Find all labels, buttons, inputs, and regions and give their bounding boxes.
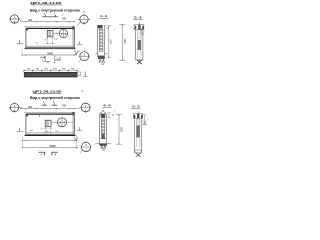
svg-text:3-3: 3-3 <box>134 16 143 20</box>
title 2: panel mark ЦР1-36.13.95 <box>33 89 63 93</box>
dim text under opening <box>44 39 47 41</box>
svg-text:2980: 2980 <box>122 126 124 132</box>
panel 2 top-right corner plate <box>72 112 74 115</box>
top-right corner embed plate <box>72 26 74 29</box>
small label right of cut marks <box>62 15 64 17</box>
small tick below panel 2 top edge <box>39 115 41 117</box>
svg-text:4: 4 <box>40 153 42 157</box>
svg-text:780: 780 <box>62 105 67 108</box>
section 3-3b inner dark fill <box>136 125 139 137</box>
svg-text:24: 24 <box>101 64 104 66</box>
section 2-2 interior ladder <box>101 118 105 134</box>
extension line bottom-right 2 <box>76 136 78 149</box>
left axis marker circle 2 <box>9 102 21 113</box>
svg-text:4: 4 <box>63 121 65 125</box>
svg-text:4: 4 <box>83 21 85 24</box>
panel right edge (double line) <box>73 27 74 49</box>
svg-text:3: 3 <box>147 119 149 121</box>
dim text 140 right of opening dim <box>54 38 58 40</box>
subtitle: view from inner side <box>30 9 80 13</box>
dim text 901 above line 2 <box>28 106 33 109</box>
plan view strip (hatched) <box>24 72 77 77</box>
section 1-1 footing legs <box>99 59 104 63</box>
svg-text:Б: Б <box>14 20 16 24</box>
svg-text:3: 3 <box>61 32 63 36</box>
panel 2 right edge (double line) <box>73 113 74 136</box>
dim text 5990 below panel 2 <box>50 144 56 148</box>
svg-text:780: 780 <box>62 18 67 21</box>
svg-text:т: т <box>95 54 96 56</box>
leader from dim line to right axis circle <box>77 22 81 27</box>
svg-text:1: 1 <box>85 143 87 147</box>
section 2-2 base block <box>100 139 107 146</box>
svg-text:А: А <box>14 15 16 19</box>
section 3-3 base and cross legs <box>136 60 142 64</box>
svg-text:95: 95 <box>36 43 39 45</box>
section 1-1 top cap <box>98 25 103 29</box>
section 2-2 column outline <box>100 113 107 145</box>
section 2-2 top cap <box>100 111 106 118</box>
svg-text:4-4: 4-4 <box>103 103 112 107</box>
svg-text:тв: тв <box>62 15 64 17</box>
section 3-3b column outline <box>135 119 142 153</box>
section 1-1 bottom text <box>101 64 104 66</box>
dim text 780 above line <box>62 18 67 21</box>
svg-text:1: 1 <box>84 52 86 56</box>
level mark left of panel <box>17 40 23 44</box>
section 2-2 side ticks <box>94 143 111 146</box>
V weld mark below panel bottom-right <box>75 50 78 54</box>
svg-text:2980: 2980 <box>125 38 127 44</box>
faint text 180 <box>53 56 56 58</box>
dim text 5990 below panel <box>47 52 53 56</box>
dimension line above panel with ticks <box>21 21 75 22</box>
svg-text:м: м <box>82 90 84 93</box>
svg-text:140: 140 <box>46 131 49 133</box>
dimension ticks row above plan strip <box>23 69 77 72</box>
dim text inside panel left <box>36 43 39 45</box>
dimension line below panel <box>21 54 77 55</box>
letter м above right circle 2 <box>82 90 84 93</box>
panel 2 top edge (double line) <box>24 113 76 115</box>
opening square in panel 2 <box>44 120 51 126</box>
svg-text:м: м <box>83 10 85 13</box>
subtitle 2: view from inner side <box>30 96 80 100</box>
section 1-1 column outline <box>98 25 105 57</box>
svg-text:3: 3 <box>142 24 143 26</box>
slash arrow right end <box>75 50 80 55</box>
svg-text:901: 901 <box>28 19 33 22</box>
svg-text:24: 24 <box>102 150 105 152</box>
svg-text:790: 790 <box>71 69 75 71</box>
section 3-3 right small marks <box>140 24 144 35</box>
section label 2-2 (bottom) <box>102 103 112 107</box>
section 3-3 top cap with side plates <box>135 22 144 29</box>
svg-text:140: 140 <box>54 38 58 40</box>
svg-text:90: 90 <box>41 129 44 131</box>
svg-text:4: 4 <box>65 32 67 36</box>
svg-text:5990: 5990 <box>50 144 56 148</box>
level mark right of plan strip <box>83 72 88 77</box>
right axis marker circle 2 <box>80 102 91 113</box>
position circle 1 bottom right 2 <box>80 141 92 154</box>
dim text 901 above line <box>28 19 33 22</box>
dim texts inside panel 2 <box>30 129 59 133</box>
level mark right of panel <box>77 41 82 44</box>
svg-text:3: 3 <box>59 121 61 125</box>
section label 3-3 <box>133 16 142 20</box>
section 3-3 inner dark fill <box>138 40 141 50</box>
svg-text:790: 790 <box>44 69 48 71</box>
svg-text:790: 790 <box>53 69 57 71</box>
extension line bottom-left <box>21 49 23 56</box>
svg-text:А: А <box>14 104 16 108</box>
section 3-3b top cap with side plates <box>134 112 143 119</box>
svg-text:140: 140 <box>30 130 34 132</box>
svg-text:790: 790 <box>62 69 66 71</box>
section cut mark 1 (right) below panel <box>54 57 61 63</box>
section 3-3b base and cross legs <box>135 150 141 157</box>
svg-text:1190: 1190 <box>110 39 112 44</box>
first dimension line below panel 2 <box>22 140 77 141</box>
section 3-3b inner ladder <box>136 120 139 125</box>
leader arc from left axis circle to dim line <box>19 19 21 22</box>
level mark right of panel 2 <box>77 127 82 130</box>
section 3-3 column outline <box>136 30 143 61</box>
section 1-1 side ticks <box>95 53 108 56</box>
panel 2 inner ledge line above bottom edge <box>26 132 73 134</box>
svg-text:п: п <box>110 144 111 146</box>
panel bottom edge (double line) <box>25 48 76 49</box>
panel 2 top-left corner plate <box>26 114 28 116</box>
svg-text:Б: Б <box>14 108 16 112</box>
svg-text:790: 790 <box>27 69 31 71</box>
position circle 3 with leader <box>53 29 68 37</box>
svg-text:4: 4 <box>54 153 56 157</box>
svg-text:5: 5 <box>114 111 115 113</box>
extension line bottom-left 2 <box>21 136 23 149</box>
svg-text:ЦP1-36.13.95: ЦP1-36.13.95 <box>33 89 63 93</box>
section 3-3 inner ladder <box>138 31 141 39</box>
right axis marker circle <box>78 14 90 25</box>
title: panel mark ЦР1-36.14.95 <box>31 1 63 5</box>
vertical dimension line between sections <box>119 25 127 61</box>
extension lines below opening 2 <box>43 126 53 133</box>
section 1-1 right vertical dimension line <box>107 26 113 58</box>
section cut marks 2-2 below panel 2 <box>39 152 59 157</box>
panel top edge (double line) <box>24 27 76 29</box>
second dimension line below panel 2 <box>22 147 78 148</box>
panel 2 bottom edge (double line) <box>25 135 76 136</box>
extension lines below opening with ticks <box>46 36 55 44</box>
svg-text:790: 790 <box>35 69 39 71</box>
section 2-2 right top dim <box>107 111 115 118</box>
section cut marks 2-2 above panel <box>42 12 58 17</box>
svg-text:3: 3 <box>113 29 115 31</box>
position circle 3 with leader 2 <box>51 118 73 127</box>
leader from dim line to right circle 2 <box>75 107 82 110</box>
opening square in panel <box>46 30 53 36</box>
section 3-3b right vertical dim <box>142 115 149 125</box>
svg-text:90: 90 <box>44 39 47 41</box>
V weld mark below panel 2 bottom-right <box>75 137 78 141</box>
svg-text:250: 250 <box>55 131 58 133</box>
section label 1-1 <box>99 14 109 18</box>
top-left corner embed plate <box>26 29 28 31</box>
svg-text:Вид с внутренней стороны: Вид с внутренней стороны <box>30 96 80 100</box>
section cut mark 1 (left) below panel <box>40 56 51 63</box>
section cut marks above panel 2 <box>41 100 57 105</box>
level mark left of panel 2 <box>17 128 23 132</box>
section 1-1 base block <box>98 56 104 59</box>
svg-text:1: 1 <box>42 59 44 62</box>
left axis marker circle А/Б <box>9 14 21 25</box>
section 1-1 interior ladder hatch <box>99 29 103 52</box>
section 3-3 left ticks <box>131 26 136 30</box>
position circle 1 right of dimensions <box>79 50 90 62</box>
section 2-2 bottom text <box>102 150 105 152</box>
plan strip right end detail <box>77 72 80 76</box>
svg-text:ЦP1-36.14.95: ЦP1-36.14.95 <box>31 1 63 5</box>
svg-text:3: 3 <box>131 27 132 29</box>
svg-text:901: 901 <box>28 106 33 109</box>
svg-text:38: 38 <box>112 115 115 117</box>
dim text 780 above line 2 <box>62 105 67 108</box>
svg-text:п: п <box>106 54 107 56</box>
section 2-2 inner dark segment <box>101 134 105 139</box>
svg-text:1-1: 1-1 <box>100 14 109 18</box>
section label 3-3 (bottom) <box>131 105 140 109</box>
svg-text:т: т <box>94 144 95 146</box>
dimension line above panel 2 <box>20 108 74 110</box>
section 2-2 footing legs <box>101 145 106 149</box>
panel inner ledge line above bottom edge <box>26 45 73 47</box>
panel left edge <box>25 28 27 48</box>
panel 2 left edge <box>25 114 27 135</box>
vertical dimension line bottom sections <box>116 115 123 145</box>
svg-text:3-3: 3-3 <box>132 105 141 109</box>
section 1-1 right top dim <box>105 26 116 32</box>
letter м above right circle <box>83 10 85 13</box>
